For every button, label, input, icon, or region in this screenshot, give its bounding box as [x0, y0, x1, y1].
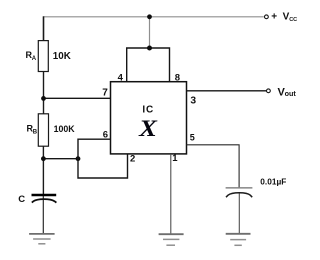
svg-text:0.01µF: 0.01µF [260, 177, 286, 187]
svg-text:CC: CC [289, 17, 297, 23]
svg-text:5: 5 [190, 133, 195, 143]
svg-text:6: 6 [103, 129, 108, 140]
svg-text:2: 2 [130, 154, 135, 165]
svg-text:1: 1 [172, 153, 178, 164]
svg-text:B: B [33, 130, 38, 136]
svg-text:X: X [138, 116, 158, 142]
svg-text:+: + [271, 12, 277, 23]
svg-text:8: 8 [175, 73, 180, 84]
svg-text:out: out [285, 89, 297, 98]
svg-text:A: A [32, 56, 37, 62]
svg-text:IC: IC [142, 105, 154, 116]
svg-text:3: 3 [190, 96, 196, 107]
svg-text:100K: 100K [54, 124, 76, 134]
svg-text:4: 4 [118, 73, 124, 84]
svg-text:7: 7 [102, 88, 108, 99]
svg-text:10K: 10K [53, 51, 71, 62]
svg-text:C: C [18, 194, 25, 205]
